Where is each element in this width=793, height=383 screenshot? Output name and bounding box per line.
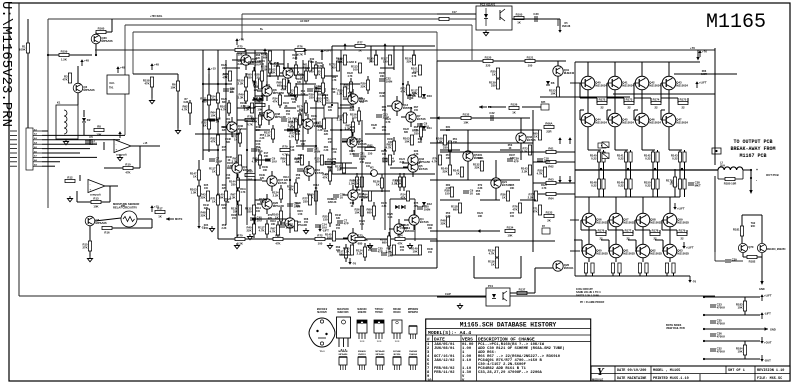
power [558, 137, 561, 144]
resistor [355, 234, 365, 246]
wire [228, 100, 230, 103]
resistor R15 [82, 241, 91, 251]
inductor L2 [718, 162, 743, 171]
svg-text:10U: 10U [322, 226, 327, 230]
wire [744, 311, 746, 315]
label R75 [414, 202, 419, 208]
wire [302, 60, 304, 150]
svg-text:C30: C30 [533, 12, 539, 16]
wire [351, 147, 353, 152]
wire [289, 140, 291, 215]
svg-text:R66A: R66A [545, 122, 552, 126]
svg-text:2N5401/: 2N5401/ [358, 350, 367, 353]
resistor [237, 77, 248, 87]
label R76 [332, 158, 337, 164]
ground [407, 243, 412, 249]
svg-text:100: 100 [204, 187, 209, 190]
resistor R130 [522, 145, 532, 155]
label R103 [240, 102, 246, 108]
svg-text:330: 330 [298, 157, 303, 160]
capacitor [333, 193, 345, 200]
label R55 [476, 190, 481, 196]
svg-text:2.2K: 2.2K [270, 70, 276, 74]
svg-text:4700U: 4700U [717, 322, 725, 326]
resistor [392, 177, 402, 187]
svg-text:R77: R77 [357, 41, 363, 45]
power [118, 131, 121, 138]
label MPSW06/ [408, 309, 419, 314]
svg-text:REVISION 1.10: REVISION 1.10 [757, 369, 784, 373]
wire [262, 180, 267, 182]
resistor [403, 135, 414, 145]
wire [266, 209, 268, 214]
wire [266, 81, 268, 86]
svg-text:DATE: DATE [434, 337, 445, 343]
resistor [316, 95, 325, 105]
svg-text:R71: R71 [275, 234, 281, 238]
wire [437, 60, 566, 62]
label MJ15024/ [317, 308, 328, 314]
junction [361, 199, 363, 201]
resistor [380, 236, 391, 246]
label R108 [226, 156, 232, 162]
svg-text:4.7K: 4.7K [411, 75, 416, 78]
wire [295, 179, 297, 183]
svg-text:1K: 1K [376, 182, 380, 186]
wire [237, 107, 255, 109]
wire [231, 132, 233, 137]
resistor R8 [94, 125, 104, 137]
wire [410, 122, 412, 127]
wire [660, 98, 662, 103]
label R166 [427, 224, 433, 230]
wire [677, 98, 679, 103]
svg-text:R134: R134 [507, 226, 514, 230]
wire [305, 68, 307, 71]
svg-text:1.5K: 1.5K [399, 227, 404, 230]
svg-text:MJE15034/: MJE15034/ [337, 308, 349, 311]
label PARTS 3.3K 1 3/4W [576, 294, 600, 297]
wire [254, 50, 256, 225]
resistor [245, 170, 255, 182]
label R120 [359, 158, 365, 164]
d7 box [542, 226, 550, 234]
wire [657, 162, 659, 169]
arrow down out [749, 190, 752, 194]
label R110 [294, 158, 300, 164]
svg-text:100N: 100N [360, 155, 367, 159]
wire [308, 176, 310, 181]
wire [570, 82, 580, 84]
svg-text:150: 150 [360, 101, 365, 104]
svg-text:22K: 22K [222, 129, 227, 132]
capacitor C30 [533, 12, 539, 22]
resistor R62 [546, 160, 556, 168]
wire [570, 250, 580, 252]
wire [358, 107, 360, 111]
label R84 [328, 106, 333, 112]
wire [101, 201, 110, 203]
wire [598, 150, 600, 152]
power transistor Q63 [662, 244, 689, 258]
svg-text:2N5551: 2N5551 [403, 106, 413, 110]
svg-text:0.22: 0.22 [645, 183, 651, 187]
wire [532, 110, 534, 252]
arrow net [248, 105, 256, 108]
svg-text:10K: 10K [96, 132, 101, 136]
resistor R171 [672, 263, 675, 273]
svg-text:3.3K: 3.3K [381, 205, 386, 208]
resistor [411, 87, 422, 97]
resistor R178 [650, 229, 660, 241]
svg-text:330: 330 [348, 95, 353, 98]
svg-text:C33,28,27,29 4700UF--> 2200A: C33,28,27,29 4700UF--> 2200A [478, 370, 543, 375]
wire [315, 201, 317, 205]
capacitor [376, 113, 389, 120]
label TIP31C/ [375, 309, 384, 314]
label R25 [204, 184, 209, 190]
svg-text:2.2K: 2.2K [357, 251, 363, 255]
svg-text:10K: 10K [478, 215, 483, 218]
svg-text:1K: 1K [282, 159, 286, 163]
resistor [238, 91, 248, 101]
wire [556, 161, 575, 163]
svg-text:R70: R70 [237, 234, 243, 238]
wire [189, 113, 191, 125]
resistor R67 [532, 205, 541, 215]
resistor R181 [733, 226, 744, 236]
wire [310, 107, 324, 109]
wire [245, 65, 247, 70]
svg-text:MJ15025: MJ15025 [596, 220, 608, 224]
resistor [255, 100, 265, 112]
label R136 [295, 202, 301, 208]
wire [634, 97, 651, 99]
svg-text:4.7K: 4.7K [349, 153, 354, 156]
resistor [200, 191, 209, 201]
wire [48, 18, 558, 20]
revision table rows [427, 342, 565, 383]
svg-text:PC1: PC1 [488, 284, 494, 288]
resistor R179 [677, 229, 687, 241]
svg-text:22: 22 [654, 105, 658, 109]
svg-text:47K: 47K [272, 99, 277, 103]
transistor [264, 110, 287, 120]
label MPSA06/ [338, 350, 348, 356]
transistor [348, 233, 368, 243]
label R82 [445, 184, 450, 190]
resistor R150 [644, 179, 655, 189]
wire [322, 93, 324, 96]
label R142 [203, 204, 209, 210]
wire [203, 149, 218, 151]
resistor [444, 187, 453, 197]
wire [761, 253, 763, 257]
junction [217, 149, 219, 151]
label R142 [335, 214, 341, 220]
label MJE340/ [357, 308, 367, 314]
resistor [314, 155, 323, 165]
wire [315, 75, 317, 79]
power transistor Q62 [635, 244, 662, 258]
svg-text:10K: 10K [271, 223, 276, 226]
schematic box bottom edge [19, 295, 715, 297]
wire [296, 67, 310, 69]
resistor [232, 133, 241, 143]
svg-text:0.22: 0.22 [591, 183, 597, 187]
wire [242, 13, 437, 15]
label R24 [204, 224, 209, 230]
output node - [750, 177, 752, 179]
capacitor [209, 117, 221, 124]
ground [303, 228, 308, 234]
resistor [349, 177, 359, 187]
svg-text:K1: K1 [57, 101, 61, 105]
wire [603, 150, 605, 152]
resistor [350, 111, 361, 121]
ground [247, 234, 252, 240]
resistor [537, 167, 547, 177]
package TO-220 b [374, 320, 384, 343]
svg-text:180R: 180R [701, 73, 707, 76]
wire loop A [237, 53, 267, 95]
wire [370, 46, 372, 62]
resistor R172 [597, 98, 607, 110]
wire [279, 92, 281, 95]
wire [449, 151, 451, 165]
label R123 [331, 198, 337, 204]
svg-text:1.10: 1.10 [462, 359, 472, 363]
wire [410, 107, 412, 112]
wire [27, 53, 29, 131]
wire [657, 189, 659, 197]
svg-text:2N5401: 2N5401 [238, 127, 248, 131]
wire [308, 161, 310, 166]
wire [299, 112, 301, 115]
label R37 [222, 184, 227, 190]
wire [396, 111, 398, 116]
wire [139, 146, 141, 168]
junction [331, 104, 333, 106]
svg-text:M1165.SCH DATABASE HISTORY: M1165.SCH DATABASE HISTORY [460, 322, 557, 329]
svg-text:-: - [756, 178, 757, 182]
svg-text:100: 100 [318, 241, 323, 245]
wire [362, 190, 390, 192]
junction [225, 83, 227, 85]
label R131 [327, 166, 333, 172]
wire [556, 182, 575, 184]
svg-text:MODEL , M1165: MODEL , M1165 [653, 369, 680, 373]
power -OUT [760, 355, 771, 363]
svg-text:0.22: 0.22 [672, 156, 678, 160]
svg-text:MODULE: MODULE [592, 377, 604, 381]
svg-text:+76V RAIL: +76V RAIL [150, 15, 163, 18]
label R45 [222, 146, 227, 152]
svg-text:47K: 47K [125, 170, 130, 174]
resistor [362, 191, 371, 201]
wire [352, 118, 354, 122]
capacitor [315, 223, 327, 230]
revision table model row [426, 330, 591, 336]
svg-text:680: 680 [404, 131, 409, 134]
svg-text:R61: R61 [548, 147, 554, 151]
capacitor [307, 87, 319, 94]
label MJE340_MJE350 [767, 248, 786, 251]
power transistor Q40 [580, 76, 607, 90]
wire [305, 100, 307, 103]
svg-text:M1165: M1165 [706, 11, 766, 34]
connector J1 [26, 128, 33, 170]
svg-text:0.22: 0.22 [618, 183, 624, 187]
svg-text:DZ5: DZ5 [541, 102, 546, 104]
wire [533, 182, 546, 184]
svg-text:10K: 10K [737, 349, 742, 353]
power +15 [207, 67, 216, 74]
wire [103, 142, 105, 150]
wire [474, 277, 521, 279]
svg-text:680: 680 [358, 241, 363, 245]
svg-text:100N: 100N [314, 150, 321, 154]
resistor [231, 205, 242, 215]
svg-text:3.3K: 3.3K [396, 181, 402, 185]
wire [575, 169, 718, 171]
wire [225, 60, 227, 225]
svg-text:1K: 1K [492, 72, 496, 76]
svg-text:PRINTED M165.1.10: PRINTED M165.1.10 [653, 377, 689, 381]
svg-text:R133: R133 [546, 211, 553, 215]
wire [241, 14, 243, 40]
wire [630, 169, 632, 179]
resistor R24 [210, 93, 219, 103]
op-amp U1A [114, 140, 131, 157]
svg-text:R12: R12 [67, 176, 73, 180]
label R138 [355, 138, 361, 144]
svg-text:2.2K: 2.2K [259, 115, 264, 118]
label R30 [368, 246, 373, 252]
resistor [400, 191, 409, 201]
svg-text:MJ15025: MJ15025 [677, 220, 689, 224]
resistor [246, 71, 255, 81]
label C17 [452, 11, 457, 14]
package TO-218 [337, 317, 351, 352]
resistor R65 [532, 130, 541, 140]
svg-text:22: 22 [681, 105, 685, 109]
wire [623, 98, 625, 103]
resistor R158 [143, 77, 154, 87]
wire [605, 230, 607, 234]
power transistor Q56 [581, 213, 608, 227]
label R125 [387, 213, 393, 219]
ground [367, 243, 372, 249]
wire [393, 46, 395, 70]
svg-text:47K: 47K [222, 75, 227, 79]
wire [345, 258, 347, 262]
wire [704, 340, 760, 342]
junction [217, 83, 219, 85]
resistor [512, 203, 521, 213]
package TO-92 MPSA42 [376, 357, 384, 370]
resistor [264, 129, 275, 139]
junction [703, 314, 705, 316]
opto-isolator PC1 box [486, 284, 510, 306]
capacitor [371, 247, 383, 254]
svg-text:150: 150 [323, 217, 328, 221]
svg-text:22: 22 [627, 105, 631, 109]
wire [352, 104, 354, 109]
svg-text:1N4148/: 1N4148/ [409, 350, 418, 353]
wire [520, 256, 522, 278]
svg-text:1U: 1U [340, 196, 344, 200]
revision table frame [426, 319, 591, 381]
svg-text:1K: 1K [358, 48, 362, 52]
svg-text:47K: 47K [210, 139, 215, 143]
capacitor C3 [85, 139, 97, 146]
wire [674, 73, 737, 75]
capacitor C38 [688, 181, 701, 188]
svg-text:TIP31C/: TIP31C/ [375, 309, 384, 311]
wire [259, 125, 261, 128]
svg-text:3.3K: 3.3K [237, 63, 242, 66]
svg-text:47K: 47K [288, 187, 293, 191]
package TO-92 1N4148 [409, 357, 417, 370]
power +OUT [760, 337, 772, 345]
label R22 [331, 76, 336, 82]
svg-text:R74: R74 [397, 234, 403, 238]
power [408, 93, 411, 100]
power [558, 26, 561, 33]
svg-text:22K: 22K [260, 177, 265, 180]
svg-text:TO-3: TO-3 [320, 351, 326, 353]
resistor [307, 191, 318, 201]
wire [277, 235, 279, 239]
svg-text:330: 330 [369, 59, 374, 63]
junction [703, 328, 705, 330]
capacitor [417, 205, 430, 212]
wire [351, 132, 353, 137]
resistor [288, 221, 297, 231]
svg-text:150: 150 [232, 217, 237, 220]
resistor [436, 135, 447, 145]
svg-text:2.2K: 2.2K [445, 215, 450, 218]
wire [177, 74, 179, 81]
resistor [315, 85, 325, 97]
wire [625, 150, 627, 152]
svg-text:47P: 47P [378, 250, 383, 254]
wire [350, 92, 352, 96]
to output pcb text [730, 139, 775, 159]
svg-text:R126: R126 [511, 103, 518, 107]
wire [390, 254, 420, 256]
wire [89, 226, 91, 241]
wire [587, 127, 589, 150]
wire [373, 216, 375, 220]
label BD139/ [393, 309, 401, 314]
svg-text:330: 330 [297, 81, 302, 84]
svg-text:10K: 10K [310, 61, 315, 64]
svg-text:100N: 100N [544, 160, 551, 164]
wire [581, 229, 596, 231]
label R133 [399, 224, 405, 230]
capacitor [287, 127, 300, 134]
wire [295, 61, 297, 65]
wire [280, 185, 282, 189]
wire [661, 220, 663, 230]
wire [237, 187, 239, 191]
label R71 [268, 214, 273, 220]
capacitor [382, 157, 395, 164]
junction [289, 179, 291, 181]
wire [295, 193, 297, 197]
